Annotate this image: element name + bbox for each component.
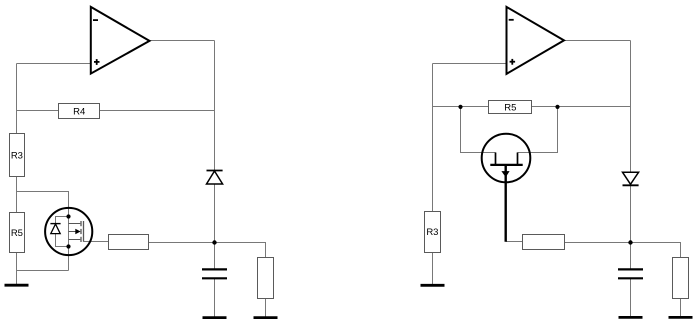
- svg-text:R3: R3: [426, 227, 438, 238]
- svg-text:R3: R3: [11, 150, 23, 161]
- svg-text:R5: R5: [504, 103, 516, 114]
- svg-text:R5: R5: [11, 228, 23, 239]
- svg-text:R4: R4: [73, 106, 85, 117]
